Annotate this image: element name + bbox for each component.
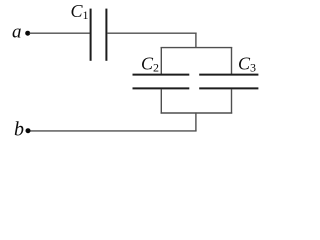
wire top bus down to C3: [231, 47, 233, 74]
bottom bus wire: [161, 112, 233, 114]
wire C3 down to bottom bus: [231, 89, 233, 114]
wire C2 down to bottom bus: [160, 89, 162, 114]
capacitor C1 left plate: [90, 9, 92, 61]
capacitor C3 top plate: [199, 74, 258, 76]
wire C1 to top corner: [107, 32, 196, 34]
svg-text:a: a: [12, 21, 22, 42]
top bus wire: [161, 47, 233, 49]
capacitor C2 bottom plate: [133, 87, 190, 89]
wire b to junction: [30, 130, 197, 132]
node b terminal dot: [26, 128, 31, 133]
wire top bus down to C2: [160, 47, 162, 74]
svg-text:b: b: [14, 119, 24, 141]
capacitor C3 bottom plate: [199, 87, 258, 89]
capacitor C2 top plate: [133, 74, 190, 76]
wire bottom bus down to b line: [195, 112, 197, 130]
node a terminal dot: [25, 31, 30, 36]
wire top corner down to top bus: [195, 33, 197, 48]
wire a to C1: [30, 32, 90, 34]
capacitor C1 right plate: [105, 9, 107, 61]
